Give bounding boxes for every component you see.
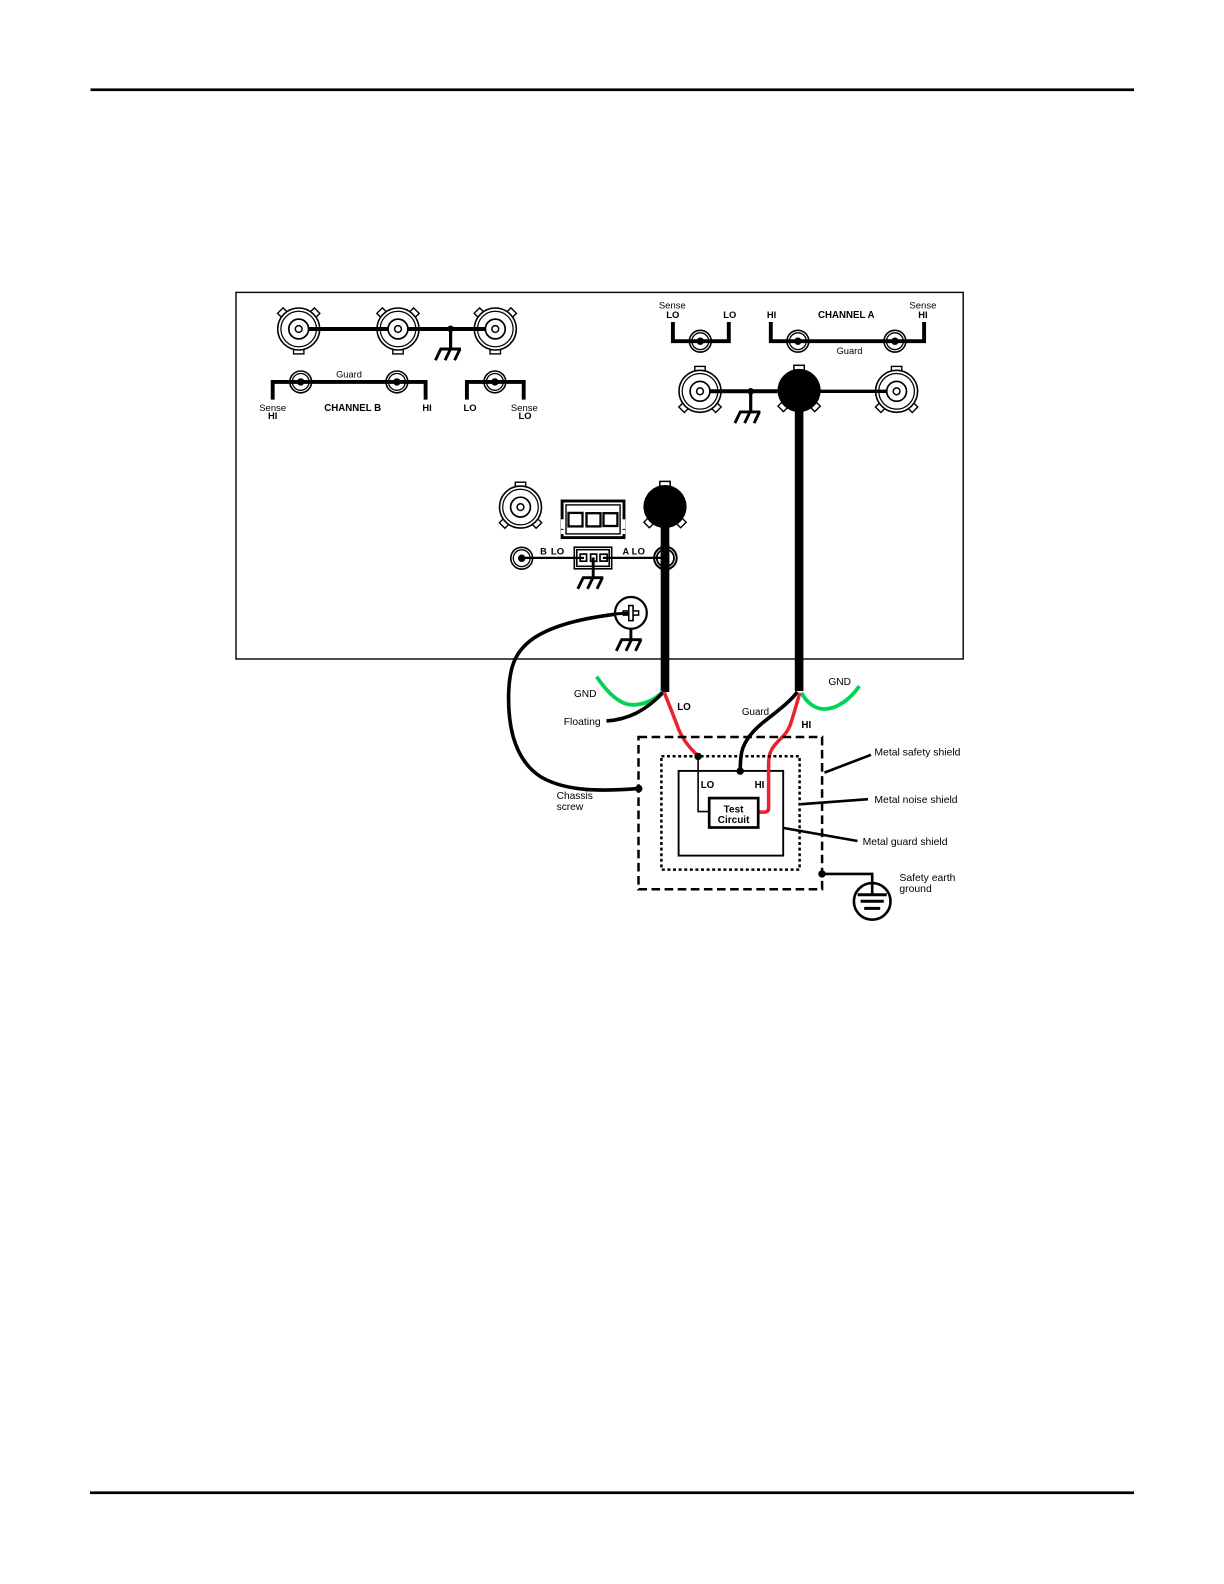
wire B LO connector to 3-pin block xyxy=(522,557,584,559)
svg-text:CHANNEL A: CHANNEL A xyxy=(818,310,875,321)
junction dot safety earth xyxy=(818,870,825,877)
junction dot chassis screw wire xyxy=(635,785,642,792)
svg-text:GND: GND xyxy=(828,677,851,688)
connector HI (B) center pin xyxy=(393,378,400,385)
svg-text:HI: HI xyxy=(767,309,776,320)
connector Sense HI (B) center pin xyxy=(297,378,304,385)
chassis ground (channel B row) xyxy=(435,349,461,360)
A LO ring around cable xyxy=(654,547,677,570)
BNC connector B3 xyxy=(474,308,516,354)
red wire LO xyxy=(664,692,698,756)
svg-text:LO: LO xyxy=(518,410,531,421)
3-pin connector outer xyxy=(574,547,611,569)
svg-text:HI: HI xyxy=(918,309,927,320)
svg-text:HI: HI xyxy=(422,402,431,413)
svg-text:Guard: Guard xyxy=(336,369,362,379)
svg-text:Metal guard shield: Metal guard shield xyxy=(863,837,948,848)
svg-text:Guard: Guard xyxy=(837,346,863,356)
chassis screw xyxy=(614,597,647,629)
connector LO (A) (rings) xyxy=(689,330,711,352)
wire bracket HI / Guard / Sense HI (channel A) xyxy=(771,322,924,341)
wire bracket Sense HI / Guard / HI (channel B) xyxy=(273,382,426,400)
wire BNC B2 to B3 xyxy=(408,327,486,331)
3-pin connector inner xyxy=(577,550,609,567)
wire BNC A1 to plug xyxy=(710,389,778,393)
wire plug to BNC A2 xyxy=(821,390,887,393)
svg-text:HI: HI xyxy=(268,410,277,421)
connector Sense HI (A) center pin xyxy=(891,338,898,345)
connector B LO center pin xyxy=(518,555,525,562)
pointer line metal noise shield xyxy=(801,799,868,804)
connector HI (B) (rings) xyxy=(386,371,408,393)
connector Sense HI (A) (rings) xyxy=(884,330,906,352)
wire pin 2 to chassis ground xyxy=(592,558,595,578)
wire chassis screw to safety shield xyxy=(509,613,639,790)
page header rule xyxy=(91,88,1135,91)
svg-text:A: A xyxy=(622,547,629,557)
safety earth ground symbol xyxy=(854,883,891,920)
svg-text:screw: screw xyxy=(557,802,584,813)
svg-text:LO: LO xyxy=(666,309,679,320)
junction dot row1 xyxy=(447,326,454,333)
wire into pin 1 xyxy=(574,557,584,559)
test circuit box xyxy=(709,798,758,827)
cable plug mid LO (black BNC) xyxy=(643,481,686,528)
metal noise shield (dotted rect) xyxy=(661,756,799,869)
BNC connector A1 xyxy=(679,366,721,412)
chassis ground (screw) xyxy=(616,640,642,651)
connector HI (A) (rings) xyxy=(787,330,809,352)
svg-text:Chassis: Chassis xyxy=(557,791,593,802)
wire pin 3 to A LO ring xyxy=(603,557,662,559)
wire BNC B1 to B2 xyxy=(309,327,389,331)
pointer line metal guard shield xyxy=(784,828,858,841)
svg-text:CHANNEL B: CHANNEL B xyxy=(324,403,381,414)
red wire HI inside shields xyxy=(758,766,768,812)
cable LO (thick) from plug down xyxy=(661,506,670,692)
terminal block slot 2 xyxy=(587,513,601,526)
junction dot LO xyxy=(694,753,701,760)
wire junction to chassis ground xyxy=(449,329,452,349)
svg-text:LO: LO xyxy=(701,780,715,791)
svg-text:Guard: Guard xyxy=(742,707,769,718)
black wire Guard lead xyxy=(740,692,797,771)
metal safety shield (dashed rect) xyxy=(639,737,823,889)
wire bracket Sense LO / LO (channel A) xyxy=(673,322,729,341)
page footer rule xyxy=(90,1491,1134,1494)
svg-text:Floating: Floating xyxy=(564,717,601,728)
junction dot Guard xyxy=(737,767,744,774)
green wire GND left xyxy=(597,677,663,705)
svg-text:LO: LO xyxy=(632,547,646,558)
chassis ground (3-pin) xyxy=(578,578,604,589)
BNC connector B2 xyxy=(377,308,419,354)
svg-text:LO: LO xyxy=(463,402,476,413)
cable HI (thick) from plug down xyxy=(795,390,804,691)
wire screw to chassis ground xyxy=(629,629,632,640)
green wire GND right xyxy=(802,686,860,709)
terminal block (3 slot) outer xyxy=(562,501,624,538)
3-pin pin 2 xyxy=(591,554,597,561)
svg-text:LO: LO xyxy=(551,547,565,558)
svg-text:HI: HI xyxy=(755,780,765,791)
svg-text:Test: Test xyxy=(724,804,744,815)
terminal block side notches xyxy=(561,519,625,534)
svg-text:Metal safety shield: Metal safety shield xyxy=(874,748,960,759)
wire Floating xyxy=(607,692,664,721)
connector B LO (rings) xyxy=(511,547,533,569)
svg-text:Safety earth: Safety earth xyxy=(899,873,955,884)
BNC connector B1 xyxy=(278,308,320,354)
instrument rear panel outline xyxy=(236,292,963,659)
BNC connector mid xyxy=(499,482,541,528)
BNC connector A2 xyxy=(875,366,917,412)
wire LO inside shields xyxy=(698,756,709,811)
connector LO (B) center pin xyxy=(491,378,498,385)
cable plug channel A (black BNC) xyxy=(778,365,821,412)
connector HI (A) center pin xyxy=(794,338,801,345)
terminal block slot 3 xyxy=(604,513,618,526)
svg-text:LO: LO xyxy=(723,309,736,320)
3-pin pin 3 xyxy=(600,554,607,561)
terminal block inner xyxy=(566,505,620,534)
terminal block slot 1 xyxy=(569,513,583,527)
svg-text:HI: HI xyxy=(801,720,811,731)
wire junction to chassis ground (channel A) xyxy=(749,391,752,412)
svg-text:Circuit: Circuit xyxy=(718,815,750,826)
metal guard shield (solid rect) xyxy=(679,771,784,856)
pointer line metal safety shield xyxy=(825,755,872,773)
wire to safety earth ground xyxy=(822,874,872,884)
svg-text:B: B xyxy=(540,547,547,557)
connector LO (A) center pin xyxy=(697,338,704,345)
connector LO (B) (rings) xyxy=(484,371,506,393)
svg-text:LO: LO xyxy=(677,702,691,713)
svg-text:Metal noise shield: Metal noise shield xyxy=(874,795,957,806)
svg-text:ground: ground xyxy=(899,884,932,895)
connector Sense HI (B) (rings) xyxy=(290,371,312,393)
red wire HI xyxy=(769,693,800,768)
chassis ground (channel A row) xyxy=(735,412,761,423)
wire bracket LO / Sense LO (channel B) xyxy=(467,382,524,400)
3-pin pin 1 xyxy=(580,554,586,561)
svg-text:GND: GND xyxy=(574,689,597,700)
junction dot (channel A row) xyxy=(747,388,754,395)
